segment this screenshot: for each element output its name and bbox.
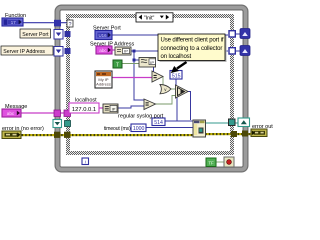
svg-text:17: 17 bbox=[11, 20, 16, 25]
case selector terminal bbox=[67, 20, 73, 28]
tunnel teal case right bbox=[229, 119, 236, 126]
equal 1 bbox=[152, 71, 163, 82]
svg-text:1000: 1000 bbox=[133, 126, 145, 132]
tunnel left 2 bbox=[65, 48, 71, 54]
wire Server IP converted bbox=[131, 50, 228, 52]
tunnel Message on loop border bbox=[54, 110, 61, 117]
node IP To String bbox=[139, 58, 156, 68]
wire 514 to VI bbox=[165, 120, 193, 122]
svg-text:regular syslog port: regular syslog port bbox=[118, 114, 164, 120]
iteration terminal bbox=[82, 158, 89, 165]
wire loop condition bbox=[216, 161, 224, 163]
error in terminal bbox=[2, 131, 21, 139]
junction dot B bbox=[133, 59, 136, 62]
svg-text:514: 514 bbox=[154, 120, 163, 126]
tunnel error case right bbox=[231, 131, 237, 137]
svg-text:Server Port: Server Port bbox=[22, 32, 49, 38]
junction dot A bbox=[133, 50, 136, 53]
svg-text:U16: U16 bbox=[98, 33, 107, 38]
wire select out down to VI bbox=[188, 92, 191, 121]
equal 2 bbox=[144, 99, 156, 110]
Server Port free label bbox=[20, 29, 51, 38]
tunnel left 1 bbox=[65, 31, 71, 37]
constant 515 bbox=[170, 71, 182, 80]
wire node2 to equal2 bbox=[118, 106, 144, 108]
wire 515 down to select bbox=[175, 79, 177, 86]
svg-text:127.0.0.1: 127.0.0.1 bbox=[72, 107, 96, 113]
wire 127.0.0.1 stub bbox=[99, 107, 103, 109]
tunnel Function on loop border bbox=[54, 20, 61, 27]
Message terminal bbox=[2, 109, 21, 117]
syslog init VI bbox=[193, 120, 206, 137]
svg-text:"Init": "Init" bbox=[144, 16, 155, 22]
tunnel error loop right bbox=[242, 131, 248, 137]
svg-text:connecting to a collector: connecting to a collector bbox=[161, 46, 223, 52]
boolean constant TF stop bbox=[206, 158, 216, 167]
Server IP Address terminal bbox=[96, 46, 112, 54]
constant 127.0.0.1 bbox=[69, 103, 99, 113]
svg-text:abc: abc bbox=[99, 48, 107, 53]
wire right tunnel to SR 2 bbox=[235, 50, 240, 52]
shift register left 1 bbox=[54, 30, 63, 40]
shift register left teal bbox=[53, 120, 62, 128]
tunnel error loop left bbox=[54, 132, 61, 138]
constant 1000 bbox=[131, 124, 146, 132]
wire 514 branch up to select f bbox=[176, 96, 178, 121]
wire teal connection out bbox=[205, 122, 238, 124]
My IP Address VI bbox=[95, 71, 112, 88]
comment note bbox=[158, 34, 227, 62]
constant 514 bbox=[152, 118, 165, 126]
tunnel right 2 bbox=[229, 48, 235, 54]
boolean constant T bbox=[113, 60, 122, 68]
loop condition terminal bbox=[224, 157, 234, 167]
case structure border bbox=[68, 16, 232, 153]
svg-text:T: T bbox=[116, 62, 119, 68]
Server IP Address free label bbox=[1, 46, 53, 55]
svg-text:Address: Address bbox=[96, 82, 111, 87]
svg-text:IP: IP bbox=[112, 107, 116, 112]
wire Server Port inside case bbox=[112, 34, 228, 36]
wire node to equal1 top bbox=[153, 67, 155, 72]
error wire left bbox=[21, 134, 193, 136]
Function terminal bbox=[2, 18, 23, 26]
shift register right teal bbox=[238, 118, 250, 127]
wire Function enum bbox=[23, 22, 68, 24]
error out terminal bbox=[251, 129, 267, 137]
svg-text:Server IP Address: Server IP Address bbox=[3, 49, 45, 55]
while loop border bbox=[58, 8, 246, 170]
wire or out bbox=[171, 88, 175, 90]
tunnel Message on case border bbox=[64, 110, 71, 117]
wire equal1 out bbox=[162, 77, 164, 86]
Server Port terminal bbox=[95, 31, 112, 40]
wire vertical branch from junction bbox=[134, 51, 144, 100]
wire My IP Address string bbox=[112, 77, 152, 79]
wire Message string bbox=[21, 112, 64, 114]
wire TF boolean bbox=[122, 63, 139, 65]
annotation arrow bbox=[171, 62, 187, 73]
svg-text:IP: IP bbox=[124, 49, 128, 54]
svg-text:Use different client port if: Use different client port if bbox=[161, 37, 224, 43]
tunnel right 1 bbox=[229, 31, 235, 37]
tunnel teal case left bbox=[65, 121, 71, 127]
select node bbox=[176, 85, 189, 98]
shift register right 1 bbox=[240, 29, 250, 39]
shift register left 2 bbox=[54, 47, 63, 57]
svg-text:abc: abc bbox=[7, 111, 15, 116]
node String To IP 1 bbox=[115, 47, 131, 55]
svg-text:timeout (ms): timeout (ms) bbox=[104, 126, 131, 132]
svg-text:on localhost: on localhost bbox=[161, 54, 192, 60]
svg-text:IP: IP bbox=[150, 60, 154, 65]
wire equal2 out bbox=[156, 96, 176, 105]
svg-text:TF: TF bbox=[208, 161, 214, 166]
svg-text:?: ? bbox=[69, 22, 72, 28]
shift register right 2 bbox=[240, 46, 250, 56]
node String To IP 2 bbox=[103, 104, 118, 113]
or gate bbox=[160, 85, 171, 94]
wire right tunnel to SR 1 bbox=[235, 33, 240, 35]
wire 1000 to VI bbox=[146, 127, 193, 129]
error wire right bbox=[204, 133, 251, 135]
tunnel error case left bbox=[64, 132, 71, 138]
wire Server IP string stub bbox=[112, 49, 115, 51]
case selector label bbox=[136, 13, 173, 22]
wire branch to IP-to-string node bbox=[134, 59, 139, 61]
svg-text:515: 515 bbox=[172, 73, 181, 79]
